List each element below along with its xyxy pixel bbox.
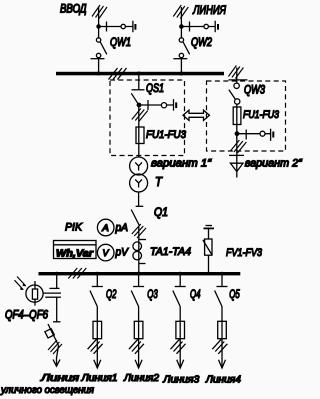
- break mark on incoming line ЛИНИЯ: [173, 5, 188, 19]
- svg-text:Линия: Линия: [40, 373, 80, 384]
- label Q1: [154, 207, 168, 219]
- feeder Q5: [212, 272, 227, 368]
- label QF4-QF6: [5, 310, 48, 322]
- wire earth to arrester: [208, 228, 210, 239]
- disconnector QW1: [91, 38, 107, 72]
- svg-text:FU1-FU3: FU1-FU3: [243, 109, 280, 121]
- svg-text:ЛИНИЯ: ЛИНИЯ: [192, 3, 226, 17]
- contact bar on QW3 earthing branch: [245, 130, 247, 140]
- junction dot QS1 bottom: [137, 103, 142, 108]
- svg-text:Линия2: Линия2: [123, 373, 159, 384]
- svg-text:pV: pV: [115, 247, 130, 259]
- svg-text:QW2: QW2: [191, 37, 212, 49]
- break mark below QW3 node: [230, 140, 246, 153]
- bus A1 (upper busbar): [56, 72, 224, 76]
- variant 2 dashed box: [207, 81, 286, 151]
- disconnector QW2: [173, 38, 189, 72]
- break mark below QS1: [132, 109, 148, 122]
- svg-text:V: V: [103, 248, 110, 258]
- disconnector QW3: [229, 83, 240, 104]
- arrester FV1-FV3 earth symbol: [204, 226, 215, 229]
- label Линия (street light): [40, 373, 80, 384]
- junction dot QW2 at bus: [179, 72, 183, 76]
- label PIK: [65, 222, 83, 234]
- junction dot QW2 top: [179, 24, 184, 29]
- wire Q1 to TA: [138, 226, 140, 240]
- node ВВОД label: [60, 4, 87, 16]
- label Q3: [147, 289, 158, 301]
- hinge circle on QW3 earthing branch: [260, 131, 265, 136]
- wire fuse to transformer: [138, 144, 140, 158]
- break mark on incoming line ВВОД: [92, 5, 107, 19]
- label вариант 1: [151, 157, 212, 169]
- break mark at top of QW3 line: [228, 66, 243, 79]
- end bar on QW1 earthing branch: [132, 21, 134, 33]
- energy meter Wh,Var: [54, 241, 97, 259]
- svg-text:вариант 1“: вариант 1“: [151, 157, 212, 169]
- fixed contact bar Q1: [136, 205, 144, 207]
- svg-text:вариант 2“: вариант 2“: [245, 158, 303, 170]
- label QW3: [244, 85, 265, 97]
- svg-text:FV1-FV3: FV1-FV3: [226, 247, 263, 259]
- label Линия1: [80, 373, 117, 384]
- break mark on bus A2: [68, 268, 86, 279]
- svg-text:Q5: Q5: [229, 289, 240, 301]
- label Линия4: [205, 374, 241, 385]
- fixed contact bar QS1: [132, 89, 145, 91]
- transformer T: [130, 157, 148, 192]
- wire fuse to node: [236, 125, 238, 140]
- wire QW3 node down: [236, 134, 238, 163]
- wire photo contact down: [56, 297, 58, 322]
- label FU1-FU3 (variant 2): [243, 109, 280, 121]
- break mark on street light line: [48, 340, 62, 354]
- label FV1-FV3: [226, 247, 263, 259]
- svg-text:уличного освещения: уличного освещения: [0, 385, 95, 396]
- break mark below Q1: [132, 224, 146, 238]
- svg-text:TA1-TA4: TA1-TA4: [150, 246, 191, 258]
- svg-text:QS1: QS1: [146, 83, 164, 95]
- earthing branch wire at QS1 node: [139, 104, 174, 106]
- contact bar on QW2 earthing branch: [189, 22, 191, 32]
- feeder Q2: [88, 272, 103, 368]
- contact bar on QW1 earthing branch: [106, 22, 108, 32]
- label Линия2: [123, 373, 159, 384]
- svg-text:QF4–QF6: QF4–QF6: [5, 310, 48, 322]
- hinge circle on QS1 earthing branch: [161, 103, 166, 108]
- earthing branch wire at QW2 node: [181, 26, 215, 28]
- junction dot QS1 at bus: [137, 72, 141, 76]
- svg-text:QW3: QW3: [244, 85, 265, 97]
- outgoing feeder arrow variant 2: [230, 163, 243, 178]
- svg-text:PIK: PIK: [65, 222, 83, 234]
- bus A2 (lower busbar): [39, 272, 241, 275]
- end thick bar on QW2 earthing branch: [217, 24, 219, 30]
- wire QW3 to fuse: [236, 104, 238, 107]
- wire arrester to lower bus: [208, 255, 210, 272]
- end thick bar on QW1 earthing branch: [134, 24, 136, 30]
- svg-text:Линия3: Линия3: [162, 374, 199, 385]
- label QW2: [191, 37, 212, 49]
- wire QS1 to fuse: [138, 105, 140, 127]
- label Wh,Var: [56, 248, 94, 260]
- label pA: [115, 222, 128, 234]
- wire TA to lower bus: [138, 264, 140, 273]
- svg-text:Линия1: Линия1: [80, 373, 117, 384]
- hinge circle on QW2 earthing branch: [204, 24, 208, 28]
- label FU1-FU3 (variant 1): [146, 129, 187, 141]
- feeder Q4: [171, 272, 186, 368]
- earthing branch wire at QW3 node: [237, 133, 271, 135]
- junction dot photo branch at bus A2: [55, 272, 59, 276]
- wire transformer to Q1: [138, 192, 140, 206]
- bar above outgoing arrow variant 2: [229, 154, 244, 156]
- wire bus to QS1: [138, 75, 140, 90]
- light arrows to photo sensor: [15, 277, 27, 291]
- node ЛИНИЯ label: [192, 3, 226, 17]
- label T: [155, 174, 163, 189]
- photo relay contact bottom bar: [45, 296, 61, 298]
- junction dot QW1 at bus: [97, 72, 101, 76]
- junction dot main drop at bus A2: [137, 272, 141, 276]
- label TA1-TA4: [150, 246, 191, 258]
- end bar on QW3 earthing branch: [270, 129, 272, 141]
- current transformers TA1-TA4: [133, 240, 146, 264]
- svg-text:Q3: Q3: [147, 289, 158, 301]
- svg-text:Q2: Q2: [106, 289, 117, 301]
- label вариант 2: [245, 158, 303, 170]
- earthing branch wire at QW1 node: [99, 26, 133, 28]
- breaker QF4-QF6: [45, 324, 59, 358]
- svg-text:ВВОД: ВВОД: [60, 4, 87, 16]
- photo relay contact top bar: [50, 287, 60, 289]
- junction dot QW1 top: [96, 24, 101, 29]
- variant 1 dashed box: [110, 80, 185, 156]
- fixed contact bar QF4-QF6: [53, 321, 61, 323]
- fuse FU1-FU3 (variant 2): [233, 107, 241, 125]
- arrester FV1-FV3: [203, 239, 212, 255]
- fuse FU1-FU3 (variant 1): [136, 127, 144, 144]
- wire ЛИНИЯ drop to QW2: [180, 7, 182, 38]
- end thick bar on QS1 earthing branch: [175, 102, 177, 108]
- disconnector QS1 blade: [131, 93, 138, 104]
- label уличного освещения: [0, 385, 95, 396]
- end bar on QW2 earthing branch: [214, 21, 216, 33]
- label QS1: [146, 83, 164, 95]
- break mark on bus A1: [109, 68, 127, 80]
- fixed contact bar QW3: [229, 79, 248, 81]
- arrow street light line: [53, 358, 60, 366]
- hinge circle on QW1 earthing branch: [121, 24, 125, 28]
- svg-text:Wh,Var: Wh,Var: [56, 248, 94, 260]
- svg-text:Q4: Q4: [190, 289, 201, 301]
- photo relay sensor: [26, 281, 61, 306]
- label Линия3: [162, 374, 199, 385]
- svg-text:Т: Т: [155, 174, 163, 189]
- ammeter pA: [97, 219, 114, 236]
- label Q2: [106, 289, 117, 301]
- label V in voltmeter: [103, 248, 110, 258]
- feeder Q3: [129, 272, 144, 368]
- end thick bar on QW3 earthing branch: [272, 132, 274, 138]
- svg-text:Линия4: Линия4: [205, 374, 241, 385]
- wire ВВОД drop to QW1: [98, 7, 100, 38]
- end bar on QS1 earthing branch: [173, 99, 175, 111]
- label Q4: [190, 289, 201, 301]
- voltmeter pV: [97, 244, 114, 261]
- svg-text:A: A: [101, 223, 109, 233]
- svg-text:QW1: QW1: [110, 37, 131, 49]
- junction dot QW3 bottom: [235, 131, 240, 136]
- svg-text:pA: pA: [115, 222, 128, 234]
- label pV: [115, 247, 130, 259]
- wire QW3 top: [236, 68, 238, 84]
- transfer arrow between variants: [183, 110, 210, 120]
- svg-text:FU1-FU3: FU1-FU3: [146, 129, 187, 141]
- label A in ammeter: [101, 223, 109, 233]
- label Q5: [229, 289, 240, 301]
- contact bar on QS1 earthing branch: [147, 100, 149, 110]
- breaker Q1 blade: [131, 210, 139, 227]
- wire bus to photo contact: [56, 275, 58, 288]
- svg-text:Q1: Q1: [154, 207, 168, 219]
- label QW1: [110, 37, 131, 49]
